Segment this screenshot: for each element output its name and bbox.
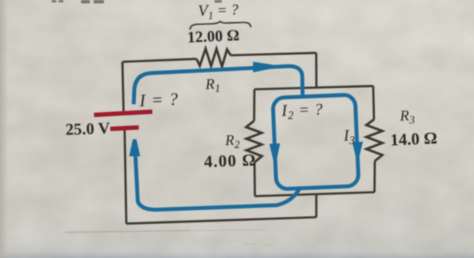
svg-text:12.00 Ω: 12.00 Ω <box>187 27 240 46</box>
wire: inner left edge below R2 <box>253 162 256 196</box>
wire: outer bottom edge <box>126 217 316 223</box>
resistor R1 zigzag <box>197 49 231 67</box>
wire: inner left edge above R2 <box>253 89 255 121</box>
wire: blue return path to battery - <box>135 156 299 210</box>
wire: blue current path from battery + through top to inner loop <box>134 66 303 104</box>
wire: blue current loop rectangle (I2/I3 paths) <box>273 95 359 190</box>
battery 25.0 V negative plate <box>110 127 139 128</box>
svg-text:25.0 V: 25.0 V <box>65 118 110 139</box>
wire: inner rectangle top edge (node) <box>254 86 373 89</box>
brace over 12.00 ohm <box>190 21 251 29</box>
svg-text:14.0 Ω: 14.0 Ω <box>390 128 438 149</box>
wire: outer top edge, left of R1 <box>122 59 196 62</box>
cropped page text fragments at top <box>52 0 223 3</box>
resistor R2 zigzag <box>246 121 262 163</box>
wire: inner right edge above R3 <box>372 86 375 120</box>
svg-text:4.00 Ω: 4.00 Ω <box>204 150 257 171</box>
wire: battery - terminal down to outer bottom-left corner <box>125 129 127 224</box>
wire: outer bottom-right vertical up to inner bottom edge <box>315 194 317 217</box>
arrowhead current I (upward, left wire) <box>129 139 140 156</box>
battery 25.0 V positive plate <box>94 112 152 115</box>
wire: outer top-left down to battery + terminal <box>122 62 123 113</box>
arrowhead current I3 (downward) <box>352 142 363 158</box>
arrowhead current I2 (downward) <box>269 143 280 160</box>
wire: inner bottom edge (node) <box>255 192 375 196</box>
wire: outer top edge, right of R1 <box>231 53 317 55</box>
svg-text:I = ?: I = ? <box>138 89 179 111</box>
faint pencil line under circuit <box>65 231 190 233</box>
arrowhead current I (rightward, top wire) <box>253 62 273 73</box>
wire: outer top-right vertical down to inner top edge <box>315 53 317 87</box>
resistor R3 zigzag <box>366 120 382 162</box>
wire: inner right edge below R3 <box>373 161 375 192</box>
